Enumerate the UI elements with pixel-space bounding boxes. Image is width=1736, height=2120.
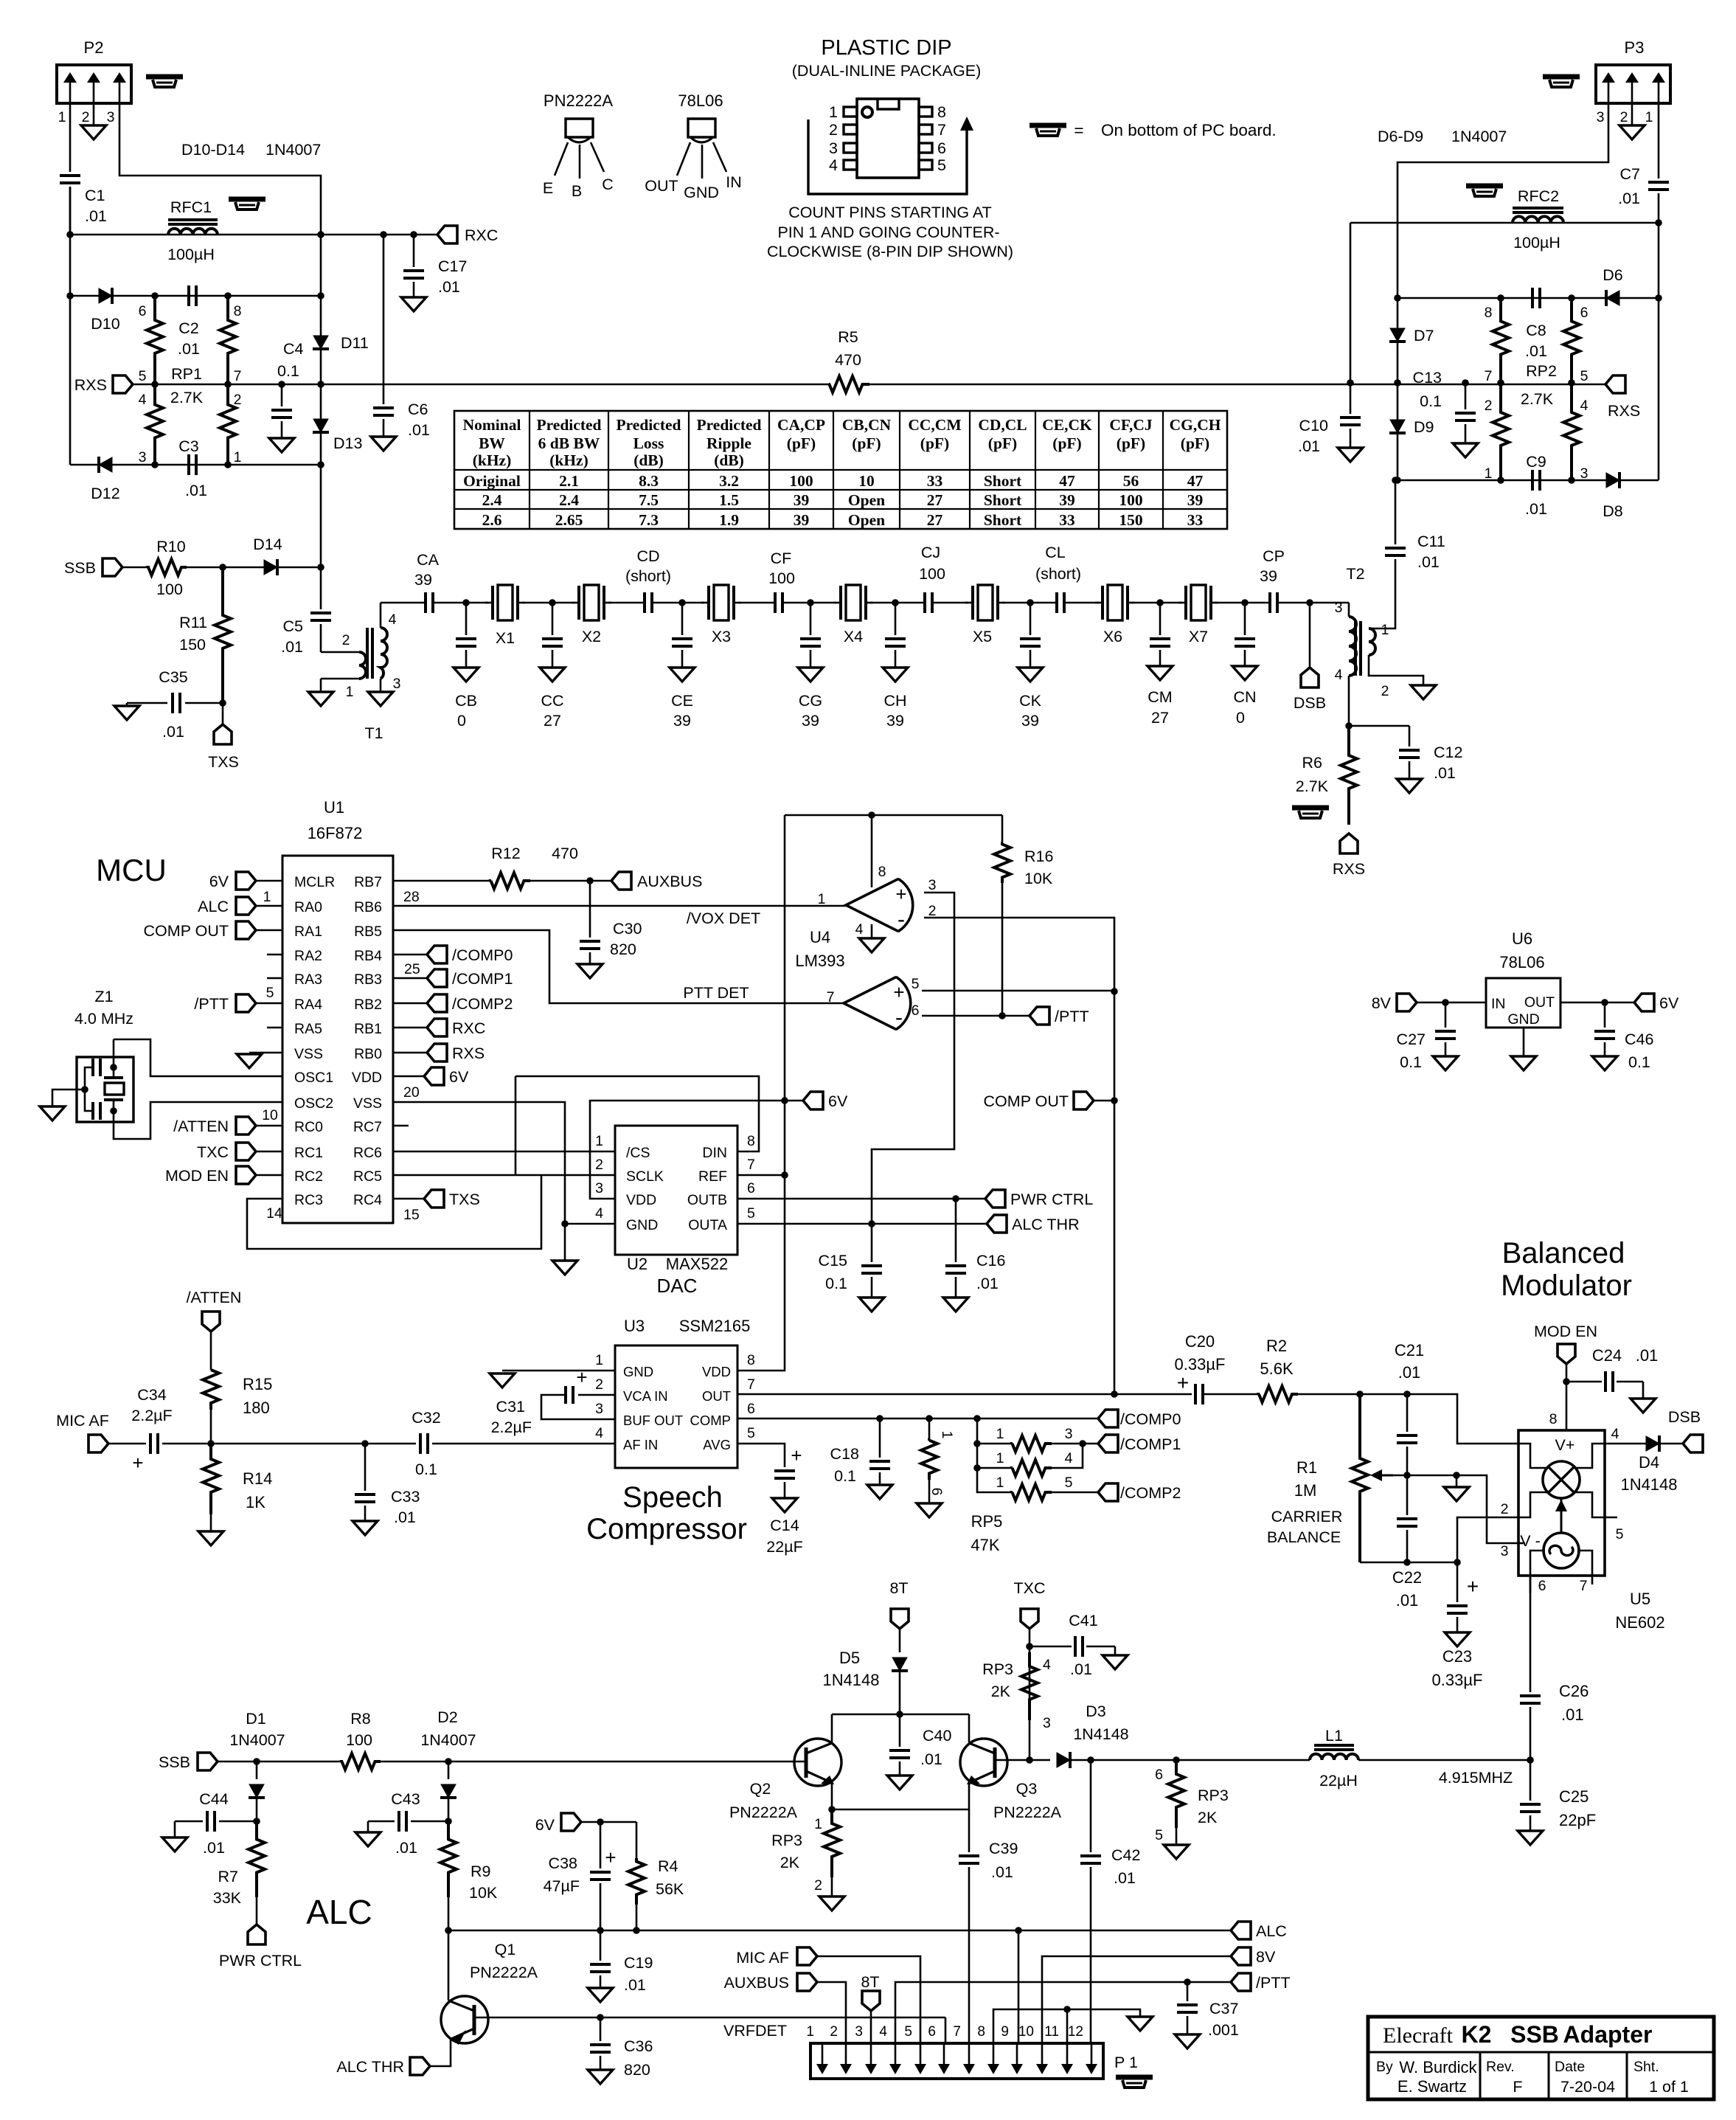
wire RXC line <box>70 234 437 236</box>
svg-text:RP2: RP2 <box>1526 362 1557 380</box>
wire DIN loop to SCLK net <box>515 1076 759 1151</box>
capacitor C44 .01 <box>219 1821 257 1823</box>
svg-text:LM393: LM393 <box>795 952 844 970</box>
svg-text:7.3: 7.3 <box>639 511 659 529</box>
svg-text:PWR CTRL: PWR CTRL <box>1010 1191 1093 1208</box>
svg-text:39: 39 <box>673 712 691 730</box>
wire U4b pin5 <box>922 990 1114 992</box>
svg-text:P2: P2 <box>84 38 104 57</box>
flag ALC at RA0 <box>236 897 256 915</box>
svg-text:.001: .001 <box>1208 2021 1239 2039</box>
capacitor CH <box>895 603 897 635</box>
wire top to D11 corner <box>228 295 321 297</box>
svg-text:Rev.: Rev. <box>1486 2059 1515 2075</box>
svg-text:15: 15 <box>403 1207 420 1223</box>
svg-text:8: 8 <box>878 864 886 880</box>
svg-text:8: 8 <box>747 1133 755 1149</box>
svg-text:/VOX DET: /VOX DET <box>687 910 760 927</box>
svg-text:6V: 6V <box>828 1092 848 1110</box>
ground at T1 pin 1 <box>308 692 333 706</box>
capacitor CG <box>810 603 812 635</box>
svg-text:SSM2165: SSM2165 <box>679 1317 751 1335</box>
svg-text:4: 4 <box>1335 667 1343 683</box>
op-amp U4a LM393 <box>846 879 913 931</box>
wire D11-D13 vertical <box>320 235 322 567</box>
svg-text:CM: CM <box>1148 688 1172 706</box>
resistor RP3 2K upper <box>1021 1652 1038 1720</box>
svg-text:DAC: DAC <box>657 1275 698 1297</box>
capacitor C37 .001 <box>1187 1982 1189 2001</box>
svg-text:=: = <box>1074 121 1083 139</box>
svg-text:Ripple: Ripple <box>706 434 751 452</box>
svg-text:6: 6 <box>912 1002 920 1019</box>
svg-text:5: 5 <box>1155 1827 1163 1843</box>
wire Q2-Q3 collector rail <box>832 1714 969 1716</box>
svg-text:.01: .01 <box>281 638 303 656</box>
wire C10 branch vertical <box>1350 223 1352 383</box>
svg-text:(short): (short) <box>625 567 671 585</box>
svg-text:2K: 2K <box>780 1854 800 1871</box>
svg-text:1N4148: 1N4148 <box>1620 1475 1677 1494</box>
svg-text:COMP OUT: COMP OUT <box>144 922 229 940</box>
svg-text:7: 7 <box>937 121 946 139</box>
svg-text:1: 1 <box>814 1816 822 1832</box>
ground under C33 <box>353 1521 378 1535</box>
resistor network RP1 lower left <box>147 384 163 465</box>
resistor network RP1 upper left <box>147 296 163 384</box>
svg-text:C8: C8 <box>1526 322 1546 339</box>
svg-text:CH: CH <box>883 692 906 710</box>
svg-text:RXS: RXS <box>1333 860 1365 878</box>
wire RXS row <box>133 384 321 386</box>
svg-text:C1: C1 <box>85 187 105 204</box>
ground under C17 <box>401 297 426 311</box>
svg-text:39: 39 <box>1021 712 1039 730</box>
svg-text:.01: .01 <box>991 1863 1013 1881</box>
wire left vertical of rectifier block <box>69 187 72 465</box>
ground at P2 pin 2 <box>93 103 95 125</box>
svg-text:1: 1 <box>996 1450 1004 1466</box>
svg-text:D10-D14: D10-D14 <box>181 141 245 159</box>
svg-text:.01: .01 <box>1434 764 1456 782</box>
capacitor C24 .01 <box>1566 1381 1602 1383</box>
svg-text:BW: BW <box>479 434 505 452</box>
svg-text:.01: .01 <box>920 1750 942 1768</box>
svg-text:CF: CF <box>771 550 792 567</box>
pcb-bottom symbol near RFC1 <box>229 197 265 202</box>
svg-text:/ATTEN: /ATTEN <box>173 1118 229 1135</box>
crystal X2 <box>577 586 580 620</box>
svg-text:.01: .01 <box>1070 1660 1092 1678</box>
svg-text:(pF): (pF) <box>787 434 816 452</box>
svg-text:C: C <box>602 176 614 193</box>
svg-text:3: 3 <box>1335 600 1343 616</box>
svg-text:6: 6 <box>747 1180 755 1196</box>
svg-text:L1: L1 <box>1325 1727 1343 1745</box>
inductor RFC1 100uH <box>168 218 218 221</box>
svg-text:RC7: RC7 <box>353 1119 382 1135</box>
svg-text:2.4: 2.4 <box>482 491 502 509</box>
svg-text:4: 4 <box>139 392 147 408</box>
svg-text:100: 100 <box>768 569 795 587</box>
wire U4a output pin3 route <box>872 893 954 1224</box>
op-amp U4b LM393 <box>844 977 911 1029</box>
svg-text:.01: .01 <box>1398 1363 1421 1382</box>
svg-text:3: 3 <box>107 109 115 125</box>
svg-text:10K: 10K <box>469 1884 498 1902</box>
svg-text:39: 39 <box>794 511 810 529</box>
svg-text:Open: Open <box>848 491 885 509</box>
svg-text:1: 1 <box>234 449 242 465</box>
IC U5 NE602 mixer <box>1518 1430 1605 1576</box>
svg-text:U6: U6 <box>1512 929 1532 948</box>
flag /COMP1 right <box>1098 1435 1118 1452</box>
svg-text:7: 7 <box>953 2024 961 2040</box>
svg-text:COMP: COMP <box>690 1413 732 1428</box>
svg-text:+: + <box>132 1452 143 1474</box>
crystal X1 <box>491 586 494 620</box>
svg-text:C39: C39 <box>989 1840 1018 1857</box>
svg-text:6V: 6V <box>209 873 229 890</box>
svg-text:DSB: DSB <box>1668 1408 1701 1426</box>
capacitor C10 <box>1350 383 1352 414</box>
wire U2 VDD to 6V rail <box>590 1101 785 1199</box>
diode D8 <box>1572 479 1659 482</box>
svg-text:6: 6 <box>747 1401 755 1417</box>
svg-text:2.4: 2.4 <box>559 491 579 509</box>
diode D7 <box>1390 328 1405 342</box>
svg-text:9: 9 <box>1001 2024 1009 2040</box>
svg-text:DIN: DIN <box>702 1145 727 1161</box>
diode D6 <box>1398 297 1501 299</box>
svg-text:RB0: RB0 <box>354 1046 382 1062</box>
capacitor C6 <box>383 384 385 404</box>
capacitor C17 <box>413 235 415 267</box>
svg-text:C22: C22 <box>1392 1568 1422 1587</box>
capacitor C42 .01 <box>1090 1760 1092 1852</box>
svg-text:Elecraft: Elecraft <box>1383 2023 1454 2048</box>
ground under CN <box>1232 666 1257 680</box>
resistor R9 10K <box>440 1821 456 1897</box>
svg-text:C7: C7 <box>1620 165 1640 183</box>
filter chain wire <box>381 602 426 604</box>
svg-text:5.6K: 5.6K <box>1260 1359 1294 1378</box>
svg-text:SSB: SSB <box>1510 2021 1559 2048</box>
resistor network RP1 lower right <box>220 384 236 465</box>
svg-text:X3: X3 <box>712 628 731 645</box>
svg-text:(pF): (pF) <box>920 434 949 452</box>
svg-text:0.1: 0.1 <box>1628 1053 1650 1071</box>
svg-text:5: 5 <box>139 368 147 384</box>
svg-text:16F872: 16F872 <box>308 824 363 842</box>
svg-text:VDD: VDD <box>352 1070 382 1086</box>
svg-text:39: 39 <box>802 712 819 730</box>
svg-text:14: 14 <box>266 1205 282 1222</box>
svg-text:RA3: RA3 <box>294 971 322 988</box>
svg-text:PIN 1 AND GOING COUNTER-: PIN 1 AND GOING COUNTER- <box>777 224 999 241</box>
resistor network RP1 upper right <box>220 296 236 384</box>
svg-text:T1: T1 <box>364 724 383 742</box>
crystal X6 <box>1101 586 1104 620</box>
svg-text:100: 100 <box>156 581 183 598</box>
svg-text:E: E <box>543 179 553 197</box>
svg-text:RP3: RP3 <box>982 1660 1013 1678</box>
svg-text:RFC2: RFC2 <box>1518 187 1559 205</box>
svg-text:MIC AF: MIC AF <box>56 1412 109 1430</box>
svg-text:C38: C38 <box>549 1854 577 1872</box>
svg-text:C19: C19 <box>624 1954 653 1972</box>
svg-text:VRFDET: VRFDET <box>723 2022 787 2040</box>
capacitor C46 0.1 <box>1604 1002 1606 1028</box>
svg-text:1N4148: 1N4148 <box>822 1671 879 1689</box>
capacitor C33 .01 <box>364 1444 367 1491</box>
svg-text:OSC2: OSC2 <box>294 1095 333 1112</box>
svg-text:11: 11 <box>1044 2024 1059 2040</box>
flag ALC THR <box>987 1215 1007 1233</box>
svg-text:OUT: OUT <box>702 1388 731 1404</box>
svg-text:R1: R1 <box>1296 1458 1317 1477</box>
svg-text:ALC: ALC <box>306 1893 372 1931</box>
svg-text:COUNT PINS STARTING AT: COUNT PINS STARTING AT <box>788 204 992 221</box>
svg-text:.01: .01 <box>1417 553 1440 571</box>
flag /PTT right <box>1030 1007 1049 1025</box>
svg-text:2: 2 <box>830 2024 838 2040</box>
capacitor C12 <box>1409 726 1411 746</box>
svg-text:DSB: DSB <box>1294 694 1326 712</box>
diode D10 <box>70 295 155 297</box>
svg-text:RB7: RB7 <box>354 874 382 890</box>
flag /COMP0 at RB4 <box>393 954 427 956</box>
svg-text:150: 150 <box>179 636 206 654</box>
capacitor CB <box>465 603 468 635</box>
svg-text:8T: 8T <box>889 1579 908 1597</box>
svg-text:T2: T2 <box>1346 565 1364 583</box>
svg-text:3: 3 <box>1065 1426 1073 1442</box>
svg-text:PN2222A: PN2222A <box>470 1964 538 1981</box>
svg-text:V -: V - <box>1520 1532 1540 1550</box>
svg-text:D5: D5 <box>839 1649 860 1667</box>
svg-text:TXC: TXC <box>1014 1579 1046 1597</box>
pcb-bottom symbol near P1 <box>1116 2075 1153 2080</box>
svg-text:C36: C36 <box>624 2037 653 2055</box>
svg-text:22µH: 22µH <box>1319 1772 1358 1790</box>
svg-text:RA0: RA0 <box>294 899 322 915</box>
svg-text:7: 7 <box>1485 368 1493 384</box>
capacitor C31 2.2uF <box>578 1394 615 1396</box>
svg-text:8.3: 8.3 <box>639 472 659 490</box>
svg-text:8V: 8V <box>1256 1948 1276 1966</box>
svg-text:C16: C16 <box>976 1252 1005 1269</box>
svg-text:1N4007: 1N4007 <box>229 1731 285 1749</box>
flag MOD EN at RC2 <box>236 1166 256 1184</box>
svg-text:3: 3 <box>595 1180 603 1196</box>
svg-text:1N4148: 1N4148 <box>1073 1725 1128 1743</box>
svg-text:RB3: RB3 <box>354 971 382 988</box>
svg-text:22pF: 22pF <box>1559 1811 1596 1829</box>
capacitor CD (short) <box>643 592 646 613</box>
svg-text:PN2222A: PN2222A <box>544 91 614 110</box>
svg-text:RC5: RC5 <box>353 1168 382 1185</box>
ground under C4 <box>269 438 294 452</box>
flag RXS at RB0 <box>393 1052 427 1054</box>
svg-text:PN2222A: PN2222A <box>993 1804 1062 1821</box>
capacitor C38 47uF <box>600 1822 602 1868</box>
svg-text:(pF): (pF) <box>1117 434 1145 452</box>
capacitor C34 2.2uF <box>108 1443 146 1445</box>
flag RXS left <box>113 375 133 393</box>
svg-text:1: 1 <box>818 891 826 907</box>
svg-text:RC4: RC4 <box>353 1192 382 1208</box>
svg-text:4: 4 <box>1580 398 1589 414</box>
ground under C46 <box>1592 1056 1617 1070</box>
svg-text:X2: X2 <box>582 628 601 645</box>
wire RB6 to comparator (/VOX DET) <box>393 905 846 907</box>
svg-text:4: 4 <box>829 156 838 174</box>
svg-text:CN: CN <box>1233 688 1256 706</box>
diode D13 <box>313 419 328 432</box>
svg-text:RP1: RP1 <box>171 365 202 383</box>
flag /COMP1 at RB3 <box>393 977 427 980</box>
svg-text:.01: .01 <box>1525 342 1547 360</box>
capacitor CN <box>1244 603 1246 635</box>
wire U6 OUT to 6V <box>1560 1002 1634 1004</box>
svg-text:RB1: RB1 <box>354 1021 382 1037</box>
svg-text:10: 10 <box>262 1107 278 1123</box>
svg-text:33K: 33K <box>213 1889 242 1907</box>
svg-text:4: 4 <box>595 1205 603 1222</box>
ground at U1 VSS left <box>249 1052 282 1054</box>
svg-text:(pF): (pF) <box>852 434 881 452</box>
svg-text:56: 56 <box>1123 472 1139 490</box>
svg-text:.01: .01 <box>624 1976 646 1994</box>
diode D14 <box>223 567 321 569</box>
svg-text:3: 3 <box>855 2024 863 2040</box>
svg-text:5: 5 <box>904 2024 912 2040</box>
svg-text:.01: .01 <box>178 340 200 358</box>
svg-text:R8: R8 <box>350 1710 371 1728</box>
wire ALC junction to P1 pin9 <box>1018 1930 1020 2043</box>
svg-text:OUTA: OUTA <box>688 1217 727 1233</box>
svg-text:ALC THR: ALC THR <box>1012 1216 1080 1233</box>
svg-text:-: - <box>895 1005 903 1030</box>
svg-text:4.0 MHz: 4.0 MHz <box>74 1010 133 1028</box>
svg-text:Date: Date <box>1555 2059 1585 2075</box>
capacitor C36 820 <box>600 2017 602 2041</box>
svg-text:(dB): (dB) <box>714 451 744 469</box>
svg-text:RA5: RA5 <box>294 1021 322 1037</box>
crystal X7 <box>1184 586 1187 620</box>
resistor network RP2 upper left <box>1493 298 1509 384</box>
svg-text:.01: .01 <box>1396 1591 1419 1610</box>
svg-text:6: 6 <box>1538 1578 1546 1594</box>
svg-text:PLASTIC DIP: PLASTIC DIP <box>821 36 951 60</box>
transformer T1 <box>321 651 359 654</box>
flag /COMP2 at RB2 <box>393 1002 427 1005</box>
wire P2 pin3 over to right <box>119 103 321 235</box>
ground under C37 <box>1175 2034 1200 2048</box>
ground under CG <box>798 668 823 682</box>
inductor L1 22uH <box>1176 1759 1310 1762</box>
svg-text:W. Burdick: W. Burdick <box>1399 2058 1477 2076</box>
svg-text:CJ: CJ <box>921 544 940 561</box>
ground under C40 <box>887 1776 912 1790</box>
resistor network RP2 lower right <box>1563 384 1580 480</box>
svg-text:3: 3 <box>1597 109 1605 125</box>
svg-text:Q3: Q3 <box>1016 1780 1038 1798</box>
capacitor C15 0.1 <box>871 1224 873 1262</box>
svg-text:4: 4 <box>1065 1450 1073 1466</box>
svg-text:/COMP0: /COMP0 <box>1120 1410 1181 1428</box>
capacitor CE <box>681 603 684 635</box>
svg-text:PN2222A: PN2222A <box>729 1804 798 1821</box>
svg-text:D8: D8 <box>1603 502 1623 520</box>
svg-text:RC6: RC6 <box>353 1145 382 1161</box>
capacitor C7 <box>1658 103 1660 179</box>
capacitor C22 .01 <box>1406 1475 1409 1515</box>
ground at C41 <box>1114 1646 1117 1655</box>
wire U5 pin6 to C26 <box>1530 1576 1532 1692</box>
svg-text:1N4007: 1N4007 <box>1451 128 1507 145</box>
transformer T2 <box>1348 603 1350 617</box>
ground under C15 <box>859 1298 884 1312</box>
wire R1 bottom row to U5 pin2 <box>1360 1562 1457 1564</box>
svg-text:2: 2 <box>342 632 350 648</box>
ground under C14 <box>772 1498 797 1512</box>
svg-text:+: + <box>576 1366 587 1388</box>
svg-text:C12: C12 <box>1434 744 1462 761</box>
wire 6V to R4 <box>581 1821 636 1823</box>
svg-text:MIC AF: MIC AF <box>736 1949 789 1967</box>
ground under U2 GND <box>564 1224 566 1261</box>
ground at U3 GND <box>502 1370 615 1372</box>
ground under C27 <box>1433 1056 1458 1070</box>
capacitor CJ 100 <box>923 592 926 613</box>
pcb-bottom symbol near RFC2 <box>1466 184 1503 189</box>
svg-text:C42: C42 <box>1111 1846 1140 1864</box>
svg-text:C4: C4 <box>283 340 304 358</box>
svg-text:RC3: RC3 <box>294 1192 323 1208</box>
capacitor C14 22uF <box>737 1444 785 1467</box>
svg-text:D9: D9 <box>1414 418 1434 436</box>
svg-text:0: 0 <box>457 712 466 730</box>
svg-text:R12: R12 <box>491 845 520 862</box>
svg-text:3.2: 3.2 <box>719 472 739 490</box>
flag PWR CTRL bottom <box>256 1897 258 1925</box>
svg-text:1: 1 <box>996 1426 1004 1442</box>
svg-text:D6: D6 <box>1603 266 1623 284</box>
svg-text:(kHz): (kHz) <box>473 451 512 469</box>
svg-text:R16: R16 <box>1024 848 1053 865</box>
ground under CM <box>1148 666 1173 680</box>
svg-text:X4: X4 <box>844 628 863 645</box>
svg-text:C18: C18 <box>830 1445 859 1463</box>
svg-text:VSS: VSS <box>294 1046 323 1062</box>
ground under C36 <box>588 2070 613 2084</box>
svg-text:E. Swartz: E. Swartz <box>1398 2077 1467 2096</box>
svg-text:C27: C27 <box>1397 1030 1426 1048</box>
svg-text:(pF): (pF) <box>988 434 1017 452</box>
ground at U6 GND <box>1523 1028 1525 1056</box>
svg-text:D7: D7 <box>1414 327 1434 344</box>
capacitor CC <box>552 603 554 635</box>
svg-text:VSS: VSS <box>353 1095 382 1112</box>
svg-text:5: 5 <box>1616 1526 1624 1542</box>
ground under C18 <box>867 1485 892 1499</box>
svg-text:CB,CN: CB,CN <box>842 416 892 434</box>
flag /PTT bottom right <box>1231 1973 1251 1991</box>
svg-text:2K: 2K <box>1198 1809 1218 1826</box>
wire U4b pin6 to /PTT <box>922 1015 1030 1017</box>
